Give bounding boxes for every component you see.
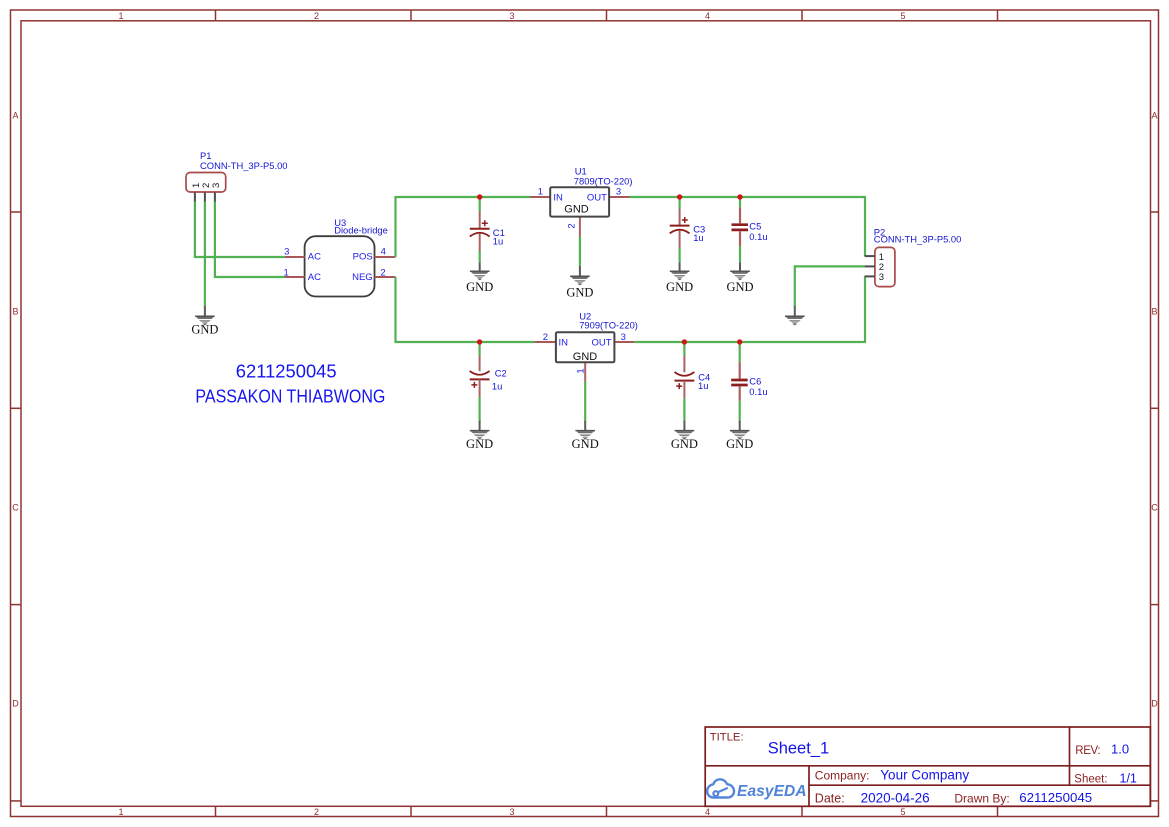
svg-text:Sheet_1: Sheet_1 bbox=[768, 739, 829, 757]
wire top bus U1.OUT to P2.1 bbox=[630, 197, 866, 256]
svg-text:CONN-TH_3P-P5.00: CONN-TH_3P-P5.00 bbox=[874, 234, 962, 245]
svg-text:5: 5 bbox=[900, 11, 905, 21]
wire P1.3 to U3 pin1 bbox=[215, 201, 285, 277]
ground (C3) bbox=[670, 262, 690, 280]
svg-text:AC: AC bbox=[308, 272, 321, 283]
svg-text:3: 3 bbox=[284, 247, 289, 258]
wire U2 pin1 to ground bbox=[584, 382, 586, 422]
svg-text:3: 3 bbox=[879, 272, 884, 283]
svg-text:3: 3 bbox=[509, 11, 514, 21]
svg-text:Sheet:: Sheet: bbox=[1074, 773, 1107, 785]
regulator U2 pin stubs bbox=[534, 342, 634, 382]
svg-text:A: A bbox=[1151, 110, 1157, 120]
junction C2 bottom bus bbox=[477, 339, 482, 344]
junction C1 top bus bbox=[477, 194, 482, 199]
svg-text:NEG: NEG bbox=[352, 272, 373, 283]
svg-text:C2: C2 bbox=[495, 368, 507, 379]
svg-text:5: 5 bbox=[900, 807, 905, 817]
junction C6 bottom bus bbox=[737, 339, 742, 344]
title block bbox=[705, 727, 1150, 806]
ground (C6) bbox=[730, 421, 750, 440]
svg-text:IN: IN bbox=[559, 338, 569, 349]
capacitor C3 bbox=[670, 197, 690, 262]
svg-text:4: 4 bbox=[381, 247, 386, 258]
capacitor C5 bbox=[732, 197, 749, 262]
svg-text:C6: C6 bbox=[749, 375, 761, 386]
svg-text:GND: GND bbox=[191, 322, 218, 336]
svg-text:3: 3 bbox=[616, 187, 621, 198]
junction C3 top bus bbox=[677, 194, 682, 199]
connector P1 bbox=[186, 173, 226, 193]
capacitor C2 bbox=[470, 342, 490, 422]
regulator U1 pin stubs bbox=[530, 197, 630, 237]
wire U3 NEG to bottom bus bbox=[396, 277, 535, 342]
ground (P1 pin 2) bbox=[195, 306, 215, 325]
wire P1.1 to U3 pin3 bbox=[195, 201, 285, 257]
svg-text:C: C bbox=[1151, 503, 1158, 513]
svg-text:C: C bbox=[12, 503, 19, 513]
ground (C2) bbox=[470, 421, 490, 440]
svg-text:0.1u: 0.1u bbox=[749, 386, 767, 397]
ground (U1 pin 2) bbox=[570, 266, 590, 285]
svg-text:2: 2 bbox=[567, 223, 578, 228]
wire bottom bus U2.OUT to P2.3 bbox=[634, 276, 865, 342]
svg-text:3: 3 bbox=[621, 332, 626, 343]
svg-text:6211250045: 6211250045 bbox=[1019, 790, 1092, 805]
svg-text:2: 2 bbox=[314, 807, 319, 817]
connector P2 bbox=[875, 247, 895, 286]
svg-text:PASSAKON THIABWONG: PASSAKON THIABWONG bbox=[195, 385, 385, 406]
svg-text:1/1: 1/1 bbox=[1120, 771, 1137, 785]
svg-text:1u: 1u bbox=[492, 381, 502, 392]
svg-text:GND: GND bbox=[564, 203, 589, 215]
svg-text:GND: GND bbox=[666, 280, 693, 294]
svg-text:B: B bbox=[12, 307, 18, 317]
EasyEDA logo cloud bbox=[707, 779, 734, 797]
svg-text:Date:: Date: bbox=[815, 791, 845, 805]
ground (C1) bbox=[470, 262, 490, 280]
svg-text:1: 1 bbox=[538, 187, 543, 198]
svg-text:2020-04-26: 2020-04-26 bbox=[861, 791, 930, 806]
svg-text:0.1u: 0.1u bbox=[749, 231, 767, 242]
svg-text:1.0: 1.0 bbox=[1111, 742, 1129, 757]
svg-text:6211250045: 6211250045 bbox=[236, 361, 337, 382]
svg-text:AC: AC bbox=[308, 252, 321, 263]
svg-text:GND: GND bbox=[566, 285, 593, 299]
svg-text:4: 4 bbox=[705, 807, 710, 817]
svg-text:1u: 1u bbox=[493, 236, 503, 247]
svg-text:POS: POS bbox=[353, 252, 373, 263]
svg-text:1: 1 bbox=[118, 11, 123, 21]
ground (C5) bbox=[730, 262, 750, 280]
capacitor C4 bbox=[675, 342, 695, 422]
svg-text:IN: IN bbox=[553, 193, 563, 204]
svg-text:2: 2 bbox=[380, 268, 385, 279]
diode bridge U3 bbox=[305, 236, 375, 296]
wire U3 POS to top bus bbox=[396, 197, 531, 257]
svg-text:2: 2 bbox=[314, 11, 319, 21]
wire U1 pin2 to ground bbox=[579, 237, 581, 267]
svg-text:GND: GND bbox=[671, 437, 698, 451]
svg-text:1: 1 bbox=[284, 268, 289, 279]
svg-text:OUT: OUT bbox=[587, 193, 607, 204]
svg-text:GND: GND bbox=[726, 437, 753, 451]
svg-text:OUT: OUT bbox=[591, 338, 611, 349]
wire P2.2 to ground bbox=[795, 266, 865, 307]
svg-text:3: 3 bbox=[509, 807, 514, 817]
svg-text:1: 1 bbox=[576, 368, 587, 373]
wire P1.2 to ground bbox=[204, 201, 206, 307]
ground (U2 pin 1) bbox=[575, 421, 595, 440]
svg-text:GND: GND bbox=[466, 280, 493, 294]
svg-text:4: 4 bbox=[705, 11, 710, 21]
regulator U2 body bbox=[556, 332, 615, 362]
svg-text:Company:: Company: bbox=[815, 769, 870, 783]
svg-text:EasyEDA: EasyEDA bbox=[737, 783, 807, 800]
svg-text:GND: GND bbox=[726, 280, 753, 294]
ground (C4) bbox=[675, 421, 695, 440]
svg-text:GND: GND bbox=[573, 351, 598, 363]
svg-text:1u: 1u bbox=[698, 380, 708, 391]
junction C5 top bus bbox=[737, 194, 742, 199]
svg-text:D: D bbox=[1151, 699, 1158, 709]
svg-text:1: 1 bbox=[118, 807, 123, 817]
svg-text:3: 3 bbox=[211, 183, 222, 188]
U3 pin stubs bbox=[285, 257, 396, 277]
svg-text:TITLE:: TITLE: bbox=[710, 731, 744, 743]
svg-text:1u: 1u bbox=[693, 232, 703, 243]
P1 pin stubs bbox=[195, 193, 215, 202]
svg-text:CONN-TH_3P-P5.00: CONN-TH_3P-P5.00 bbox=[200, 160, 288, 171]
svg-text:A: A bbox=[12, 110, 18, 120]
svg-text:7909(TO-220): 7909(TO-220) bbox=[579, 319, 638, 330]
svg-text:GND: GND bbox=[466, 437, 493, 451]
svg-text:7809(TO-220): 7809(TO-220) bbox=[574, 175, 633, 186]
svg-text:GND: GND bbox=[572, 437, 599, 451]
svg-text:B: B bbox=[1151, 307, 1157, 317]
P2 pin stubs bbox=[865, 256, 875, 276]
svg-text:Diode-bridge: Diode-bridge bbox=[334, 225, 388, 236]
svg-text:Drawn By:: Drawn By: bbox=[954, 791, 1009, 805]
svg-text:D: D bbox=[12, 699, 19, 709]
junction C4 bottom bus bbox=[682, 339, 687, 344]
svg-text:Your Company: Your Company bbox=[880, 768, 969, 783]
capacitor C6 bbox=[731, 342, 748, 422]
capacitor C1 bbox=[470, 197, 490, 262]
svg-text:REV:: REV: bbox=[1075, 745, 1100, 757]
svg-text:2: 2 bbox=[543, 332, 548, 343]
ground (P2 pin 2) bbox=[785, 306, 805, 325]
regulator U1 body bbox=[550, 187, 609, 216]
